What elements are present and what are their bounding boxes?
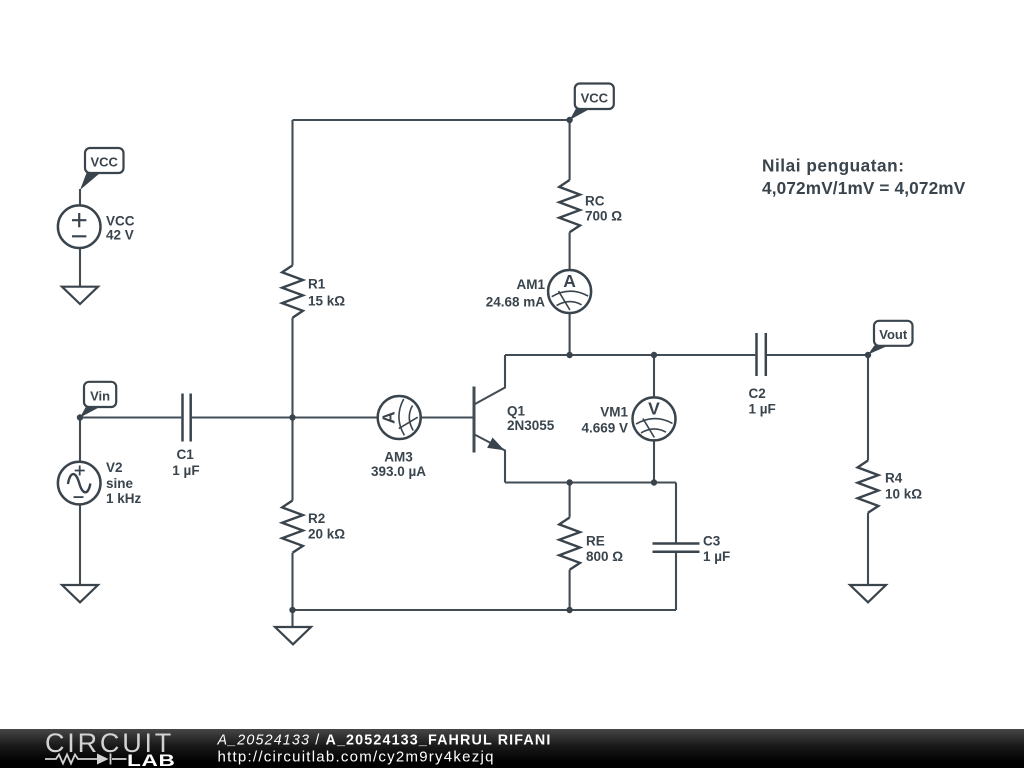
svg-text:sine: sine (106, 476, 134, 491)
svg-text:1 µF: 1 µF (749, 401, 776, 416)
svg-text:A_20524133 / A_20524133_FAHRUL: A_20524133 / A_20524133_FAHRUL RIFANI (217, 732, 552, 748)
svg-text:4,072mV/1mV = 4,072mV: 4,072mV/1mV = 4,072mV (762, 178, 966, 198)
svg-text:VCC: VCC (581, 90, 609, 105)
svg-text:AM3: AM3 (384, 450, 413, 465)
svg-text:RC: RC (585, 194, 605, 209)
svg-text:1 µF: 1 µF (172, 463, 199, 478)
svg-text:A: A (563, 271, 576, 291)
svg-text:800 Ω: 800 Ω (586, 549, 623, 564)
svg-text:AM1: AM1 (516, 277, 545, 292)
svg-text:LAB: LAB (127, 751, 175, 768)
svg-text:A: A (379, 411, 399, 424)
svg-text:42 V: 42 V (106, 228, 134, 243)
svg-text:20 kΩ: 20 kΩ (308, 527, 345, 542)
svg-text:Nilai penguatan:: Nilai penguatan: (762, 156, 905, 176)
svg-text:RE: RE (586, 534, 605, 549)
svg-text:R1: R1 (308, 277, 326, 292)
svg-text:1 µF: 1 µF (703, 549, 730, 564)
svg-text:Q1: Q1 (507, 403, 526, 418)
svg-text:24.68 mA: 24.68 mA (486, 295, 546, 310)
svg-text:VCC: VCC (106, 214, 135, 229)
svg-text:Vin: Vin (90, 389, 110, 404)
svg-text:V2: V2 (106, 460, 123, 475)
svg-text:393.0 µA: 393.0 µA (371, 464, 426, 479)
svg-text:VM1: VM1 (600, 404, 628, 419)
svg-text:4.669 V: 4.669 V (581, 420, 628, 435)
svg-text:R4: R4 (885, 470, 903, 485)
svg-text:R2: R2 (308, 511, 325, 526)
svg-text:10 kΩ: 10 kΩ (885, 487, 922, 502)
svg-text:Vout: Vout (879, 327, 908, 342)
svg-text:http://circuitlab.com/cy2m9ry4: http://circuitlab.com/cy2m9ry4kezjq (218, 748, 495, 765)
svg-text:15 kΩ: 15 kΩ (308, 293, 345, 308)
svg-text:1 kHz: 1 kHz (106, 491, 142, 506)
svg-text:700 Ω: 700 Ω (585, 208, 622, 223)
svg-text:C2: C2 (749, 386, 766, 401)
svg-text:2N3055: 2N3055 (507, 418, 555, 433)
svg-text:VCC: VCC (90, 155, 118, 170)
svg-text:C3: C3 (703, 534, 721, 549)
svg-text:V: V (648, 398, 660, 418)
svg-text:C1: C1 (177, 447, 195, 462)
